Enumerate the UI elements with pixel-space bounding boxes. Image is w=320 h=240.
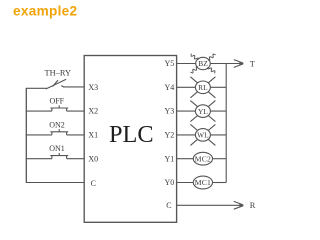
svg-text:Y3: Y3 (165, 107, 175, 116)
svg-text:WL: WL (197, 131, 209, 140)
wire: Y2 row to bus (210, 134, 226, 136)
pushbutton ON1 (NO) (50, 153, 68, 159)
svg-text:X3: X3 (88, 83, 98, 92)
lamp WL (190, 124, 215, 145)
wire: Y5 row (PLC to buzzer) (177, 63, 196, 65)
svg-text:C: C (166, 201, 171, 210)
svg-text:RL: RL (198, 83, 208, 92)
svg-text:X0: X0 (88, 154, 98, 163)
wire: Y0 row to bus (212, 182, 226, 184)
svg-text:YL: YL (198, 107, 208, 116)
pushbutton OFF (NC) (50, 105, 68, 111)
wire: Y5 row to T arrow (210, 63, 240, 65)
svg-text:T: T (250, 59, 255, 68)
svg-text:ON1: ON1 (49, 144, 65, 153)
svg-text:Y0: Y0 (165, 178, 175, 187)
svg-text:Y2: Y2 (165, 131, 175, 140)
wire: left supply rail (25, 88, 27, 182)
svg-text:MC1: MC1 (195, 178, 211, 187)
contactor coil MC2 (193, 152, 212, 165)
svg-text:Y4: Y4 (165, 83, 175, 92)
svg-text:OFF: OFF (49, 97, 64, 106)
svg-text:X2: X2 (88, 107, 98, 116)
svg-text:PLC: PLC (109, 121, 154, 148)
pushbutton ON2 (NO) (50, 129, 68, 135)
wire: X3 row left segment (26, 87, 47, 89)
svg-text:ON2: ON2 (49, 120, 65, 129)
svg-text:X1: X1 (88, 131, 98, 140)
wire: Y4 row to bus (210, 86, 226, 88)
wire: X1 row right segment (67, 134, 85, 136)
svg-text:example2: example2 (13, 3, 78, 18)
svg-text:BZ: BZ (198, 59, 208, 68)
lamp RL (190, 77, 215, 98)
wire: Y3 row to bus (210, 110, 226, 112)
wire: Y4 row (PLC to lamp RL) (177, 86, 196, 88)
svg-text:Y1: Y1 (165, 154, 175, 163)
svg-text:MC2: MC2 (195, 154, 211, 163)
wire: output bus (vertical) (225, 64, 227, 183)
wire: Y1 row (PLC to coil MC2) (177, 158, 194, 160)
wire: X2 row left segment (26, 110, 52, 112)
svg-text:TH–RY: TH–RY (45, 69, 72, 78)
contact TH-RY (thermal relay, NC) (46, 79, 66, 89)
arrow to R (234, 201, 244, 209)
contactor coil MC1 (193, 176, 212, 189)
lamp YL (190, 101, 215, 122)
buzzer BZ (190, 54, 215, 74)
wire: X2 row right segment (67, 110, 85, 112)
wire: common C row (left rail to PLC C pin) (26, 182, 84, 184)
arrow to T (234, 60, 244, 68)
wire: Y0 row (PLC to coil MC1) (177, 182, 194, 184)
wire: Y2 row (PLC to lamp WL) (177, 134, 196, 136)
wire: Y1 row to bus (212, 158, 226, 160)
wire: Y3 row (PLC to lamp YL) (177, 110, 196, 112)
svg-text:R: R (250, 201, 256, 210)
wire: X0 row right segment (67, 158, 85, 160)
PLC box U1 (84, 56, 176, 223)
wire: X1 row left segment (26, 134, 52, 136)
wire: X0 row left segment (26, 158, 52, 160)
svg-text:Y5: Y5 (165, 59, 175, 68)
wire: C row to R arrow (177, 204, 240, 206)
wire: X3 row right segment (63, 86, 84, 88)
svg-text:C: C (91, 179, 96, 188)
